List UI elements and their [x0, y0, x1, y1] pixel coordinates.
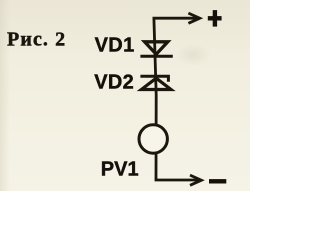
arrowhead on top wire pointing right: [188, 13, 199, 23]
plus polarity symbol: [208, 10, 222, 27]
diode VD1 cathode bar: [140, 55, 172, 58]
wire: vertical main bus from top corner down to bottom corner: [154, 18, 156, 180]
diode VD1 (triangle pointing down, outline): [145, 42, 168, 54]
svg-text:PV1: PV1: [101, 159, 139, 181]
minus polarity symbol: [209, 179, 226, 183]
svg-text:VD2: VD2: [94, 72, 134, 94]
zener diode VD2 cathode bar with bent right end: [140, 76, 168, 82]
svg-text:Рис. 2: Рис. 2: [7, 29, 66, 51]
zener diode VD2 (triangle pointing up, outline): [141, 78, 171, 89]
wire: top horizontal from corner to right toward plus terminal: [154, 18, 198, 19]
svg-text:VD1: VD1: [95, 35, 135, 57]
arrowhead on bottom wire pointing right: [190, 175, 201, 185]
wire: bottom horizontal from corner to right toward minus terminal: [156, 179, 198, 180]
solar cell PV1 (circle): [139, 125, 167, 153]
